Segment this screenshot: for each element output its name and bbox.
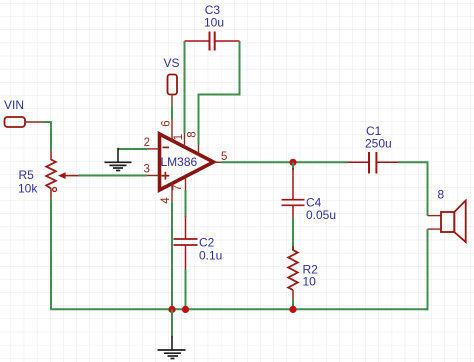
pin 4: [160, 183, 172, 204]
svg-text:VS: VS: [164, 56, 180, 70]
capacitor C2: [174, 217, 198, 270]
svg-text:2: 2: [144, 137, 150, 149]
label R5 10k: [18, 168, 38, 196]
wire R5 bottom down: [50, 198, 52, 309]
svg-text:5: 5: [221, 151, 227, 163]
capacitor C1: [348, 152, 399, 174]
svg-text:C1: C1: [366, 124, 382, 138]
junction dot C2 bus: [182, 306, 189, 313]
svg-text:4: 4: [160, 197, 172, 204]
resistor R5 potentiometer: [46, 150, 78, 198]
label C1 250u: [365, 124, 392, 151]
pin 5: [214, 151, 228, 163]
label 8 ohm: [438, 187, 445, 201]
pin 1: [173, 133, 185, 148]
svg-text:C2: C2: [199, 235, 215, 249]
capacitor C3: [185, 32, 240, 51]
svg-text:0.1u: 0.1u: [199, 248, 222, 262]
svg-text:8: 8: [187, 131, 199, 137]
label LM386: [161, 155, 198, 169]
svg-text:8: 8: [438, 187, 445, 201]
net label VS: [164, 56, 180, 70]
net label VIN: [4, 98, 24, 112]
svg-text:10k: 10k: [18, 182, 38, 196]
svg-text:R5: R5: [19, 168, 35, 182]
power port VS: [168, 75, 178, 109]
wire speaker to ground bus: [427, 229, 429, 310]
op-amp U1 LM386: [160, 134, 214, 190]
pin 2: [144, 137, 159, 149]
ground GND2: [158, 336, 186, 359]
pin 3: [144, 163, 160, 175]
wire R2 to ground bus: [292, 299, 294, 309]
pin 8: [187, 131, 199, 154]
svg-text:0.05u: 0.05u: [306, 208, 336, 222]
svg-text:250u: 250u: [365, 137, 392, 151]
svg-text:LM386: LM386: [161, 155, 198, 169]
pin 6: [161, 118, 173, 141]
junction dot pin4 bus: [168, 306, 175, 313]
label C3 10u: [204, 3, 224, 30]
wire VIN to R5: [43, 122, 51, 150]
wire VS to pin6: [171, 107, 173, 119]
wire R5 wiper to op-amp pin3: [78, 175, 147, 177]
port VIN: [5, 117, 44, 127]
svg-text:7: 7: [172, 185, 184, 191]
resistor R2: [288, 246, 298, 300]
wire pin7 to C2: [185, 190, 187, 217]
label C2 0.1u: [199, 235, 222, 262]
svg-text:3: 3: [144, 163, 150, 175]
ground GND1: [105, 148, 132, 171]
wire C1 to speaker: [398, 162, 428, 215]
wire C2 to ground bus: [185, 269, 187, 309]
junction dot R2 bottom: [289, 306, 296, 313]
wire C3 right to pin8: [199, 41, 240, 145]
svg-text:1: 1: [173, 134, 185, 140]
wire bus to ground symbol: [171, 309, 173, 336]
svg-text:10u: 10u: [204, 16, 224, 30]
wire pin4 to ground bus: [171, 202, 173, 309]
svg-text:VIN: VIN: [4, 98, 24, 112]
svg-text:6: 6: [161, 120, 173, 126]
wire junction to C4: [292, 162, 294, 170]
label C4 0.05u: [306, 195, 336, 222]
svg-text:10: 10: [303, 275, 317, 289]
wire pin2 to ground: [118, 148, 147, 150]
wire C4 to R2: [292, 218, 294, 250]
pin 7: [172, 177, 186, 192]
capacitor C4: [282, 168, 305, 218]
wire output pin5 to C1: [222, 161, 348, 163]
junction node output: [289, 159, 296, 166]
label R2 10: [303, 263, 319, 289]
speaker LS1: [428, 201, 466, 243]
wire C3 left to pin1: [184, 41, 186, 133]
wire ground bus bottom: [50, 308, 428, 310]
